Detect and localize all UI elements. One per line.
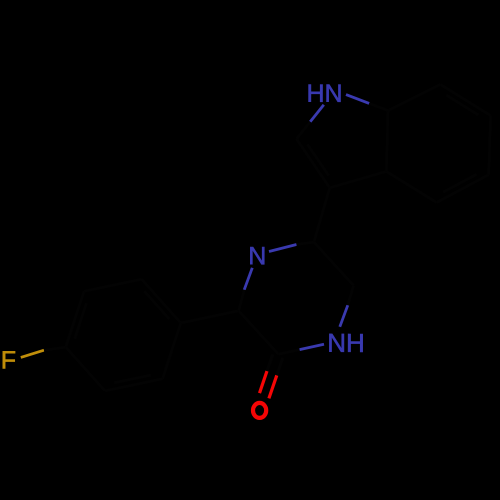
wire bond V1-V2	[66, 291, 84, 347]
wire bond C2-C3 indole	[297, 139, 330, 188]
wire bond C3a-C7a	[386, 111, 388, 172]
bond N-B (pyrazinone N to C2')	[269, 245, 297, 252]
wire inner line C4=C5	[443, 174, 476, 192]
wire bond C3-C3a	[330, 171, 387, 187]
wire bond V3-V4	[142, 279, 181, 323]
svg-text:NH: NH	[327, 328, 365, 358]
wire inner line C6=C7	[446, 95, 478, 115]
bond NH-E (amide N to carbonyl C)	[300, 344, 325, 349]
wire inner line C2=C3	[307, 144, 328, 175]
wire bond B-C	[314, 242, 354, 285]
wire inner line V1=V2	[75, 303, 87, 339]
wire bond V5-V6	[105, 379, 163, 391]
label O (carbonyl oxygen)	[253, 403, 266, 418]
svg-text:N: N	[248, 242, 266, 270]
C=O double bond left line	[260, 371, 268, 393]
wire bond C3a-C4	[386, 171, 436, 202]
bond NH-C (amide N up)	[340, 305, 348, 327]
wire bond V2-V3	[84, 279, 142, 291]
bond HN-C2 (indole N-CH)	[310, 105, 324, 122]
wire bond F6-V4 aryl attachment	[181, 311, 239, 323]
wire inner line V5=V6	[114, 375, 151, 383]
wire inner line V3=V4	[144, 291, 169, 319]
bond N-F6 (pyrazinone N to C6')	[244, 268, 252, 290]
wire bond C4-C5	[437, 175, 489, 203]
wire bond E-F6	[239, 311, 279, 354]
svg-text:HN: HN	[306, 80, 342, 108]
wire bond C7-C7a	[388, 84, 440, 110]
svg-text:F: F	[1, 347, 16, 375]
wire bond C5-C6	[489, 116, 491, 175]
bond HN-C7a (indole N to benzo)	[346, 95, 369, 104]
C=O double bond right line	[269, 375, 277, 398]
wire bond V4-V5	[163, 323, 181, 379]
wire bond V6-V1	[66, 347, 105, 391]
bond F-V1 (C-F)	[21, 350, 44, 357]
wire bond C3-B indolyl attachment	[314, 188, 330, 242]
wire bond C6-C7	[440, 84, 490, 115]
